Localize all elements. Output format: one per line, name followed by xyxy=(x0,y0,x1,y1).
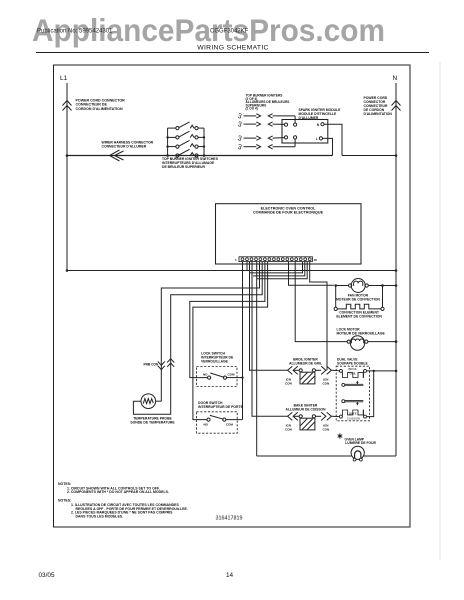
switch S4 xyxy=(176,149,198,157)
svg-text:L1: L1 xyxy=(60,75,68,82)
switch S3 xyxy=(168,140,204,148)
broil igniter HE1 xyxy=(293,369,299,371)
page edge artifact line xyxy=(439,62,441,560)
svg-text:N: N xyxy=(317,123,320,127)
svg-text:INTERRUPTEUR DE PORTE: INTERRUPTEUR DE PORTE xyxy=(198,405,244,409)
label wiring harness connector xyxy=(102,141,154,149)
wire module L to bus xyxy=(323,138,333,155)
connector IGN CON broil right xyxy=(321,366,326,374)
igniter E3 xyxy=(237,133,285,143)
svg-text:SOUPAPE DOUBLE: SOUPAPE DOUBLE xyxy=(337,362,369,366)
connector IGN CON bake left xyxy=(288,412,293,420)
label door switch xyxy=(198,401,244,409)
electronic oven control U2 xyxy=(216,204,362,264)
label bake igniter xyxy=(286,403,327,411)
svg-text:CORDON D'ALIMENTATION: CORDON D'ALIMENTATION xyxy=(76,107,123,111)
label lock switch xyxy=(201,351,234,363)
svg-text:CON: CON xyxy=(322,382,329,386)
temperature probe RT1 xyxy=(141,394,156,409)
svg-text:L: L xyxy=(316,137,318,141)
svg-text:CON: CON xyxy=(285,428,292,432)
wire EOC pin1 to lock/door COM chain xyxy=(242,262,244,420)
wire L1 to N link row xyxy=(67,270,396,272)
wire EOC to lock switch NO xyxy=(190,262,265,378)
svg-text:D'ALIMENTATION: D'ALIMENTATION xyxy=(364,112,393,116)
label oven lamp xyxy=(345,437,377,445)
bimetal arm 2 xyxy=(342,400,345,403)
igniter E1 (electrode + spark gap) xyxy=(237,111,295,123)
wire EOC to bake igniter feed xyxy=(252,262,288,417)
wire module N to neutral xyxy=(324,124,342,155)
wire switch bank left rail xyxy=(167,128,169,155)
top burner igniter switch bank xyxy=(168,128,204,155)
convection element R1 xyxy=(334,307,337,310)
connector IGN CON broil left xyxy=(288,366,293,374)
wire EOC to probe left xyxy=(161,262,259,402)
wire oven lamp row xyxy=(257,455,396,457)
label top burner igniter switches xyxy=(162,157,219,169)
svg-text:ALLUMEUR DE GRIL: ALLUMEUR DE GRIL xyxy=(289,362,322,366)
wire switch bank right rail xyxy=(203,128,205,155)
wire EOC pin16 to broil sense xyxy=(310,262,327,371)
asterisk oven lamp xyxy=(338,433,343,438)
svg-text:ELEMENT DE CONVECTION: ELEMENT DE CONVECTION xyxy=(336,315,382,319)
svg-text:14: 14 xyxy=(226,572,234,579)
svg-text:316417819: 316417819 xyxy=(216,516,243,522)
label power cord connector L1 xyxy=(76,99,126,111)
svg-text:LUMIERE DE FOUR: LUMIERE DE FOUR xyxy=(345,441,376,445)
igniter E4 xyxy=(237,139,295,151)
svg-text:SONDE DE TEMPERATURE: SONDE DE TEMPERATURE xyxy=(130,420,175,424)
svg-text:CON: CON xyxy=(322,428,329,432)
notes text french xyxy=(58,499,188,519)
lock switch SW5 xyxy=(197,367,238,387)
wire EOC to probe right xyxy=(133,262,262,415)
wire L1 vertical xyxy=(66,83,68,271)
broil valve coil xyxy=(339,369,342,372)
svg-text:Publication No: 5995424301: Publication No: 5995424301 xyxy=(37,29,113,35)
wire convection branch left xyxy=(335,286,337,308)
svg-text:NOTES:: NOTES: xyxy=(58,482,71,486)
oven lamp DS1 xyxy=(351,446,364,459)
label fan motor xyxy=(336,293,380,301)
connector PRB CON right xyxy=(167,363,174,367)
svg-text:CUISSON: CUISSON xyxy=(347,417,360,421)
title underline xyxy=(36,52,429,54)
svg-text:PRB CON: PRB CON xyxy=(144,362,159,366)
terminal strip EOC xyxy=(239,257,312,262)
bake valve coil xyxy=(339,415,342,418)
svg-text:COM: COM xyxy=(226,423,234,427)
lock motor M2 xyxy=(347,336,396,350)
wire EOC to fan motor feed xyxy=(289,262,334,286)
wire valve outputs to N rail xyxy=(367,370,397,372)
spark igniter module U1 xyxy=(282,120,328,144)
igniter E2 xyxy=(237,119,285,129)
svg-text:VERROUILLAGE: VERROUILLAGE xyxy=(201,359,229,363)
label convection element xyxy=(336,311,382,319)
svg-text:3: 3 xyxy=(237,142,243,152)
wire EOC pin15 route left xyxy=(257,262,307,279)
schematic border frame xyxy=(54,65,411,527)
label power cord connector N xyxy=(364,96,393,116)
connector IGN CON bake right xyxy=(321,412,326,420)
junction dots switch bank xyxy=(166,136,205,157)
svg-text:(2 OU 4): (2 OU 4) xyxy=(246,107,258,111)
power cord connector L1 xyxy=(63,101,72,106)
svg-text:CGGF3042KF: CGGF3042KF xyxy=(210,29,249,35)
junction L1 bus xyxy=(66,154,69,157)
svg-text:16: 16 xyxy=(314,258,318,262)
fan motor M1 xyxy=(336,279,396,293)
wire convection branch right xyxy=(382,286,384,308)
svg-text:CONNECTEUR D'ALLUMER: CONNECTEUR D'ALLUMER xyxy=(102,145,147,149)
svg-text:COM: COM xyxy=(228,372,236,376)
svg-text:MOTEUR DE VERROUILLAGE: MOTEUR DE VERROUILLAGE xyxy=(337,332,386,336)
wire neutral segment to N rail xyxy=(342,155,396,157)
wire door switch COM to chain xyxy=(226,419,243,421)
label spark igniter module xyxy=(299,108,342,120)
switch S2 xyxy=(168,131,204,139)
bimetal arm 1 xyxy=(356,381,358,384)
wire L1 bus xyxy=(67,155,333,157)
wire EOC to broil igniter feed xyxy=(250,262,288,371)
svg-text:DE BRULEUR SUPERIEUR: DE BRULEUR SUPERIEUR xyxy=(162,165,206,169)
wire N vertical xyxy=(395,83,397,456)
svg-text:BROIL: BROIL xyxy=(348,367,357,371)
bake igniter HE2 xyxy=(293,415,299,417)
label temperature probe xyxy=(130,416,175,424)
svg-text:3: 3 xyxy=(237,119,243,129)
wire EOC pin2 drop to link row xyxy=(246,262,248,271)
svg-text:BAKE: BAKE xyxy=(349,411,357,415)
svg-text:NO: NO xyxy=(204,423,209,427)
power cord connector N xyxy=(392,101,401,106)
label dual valve xyxy=(337,357,369,365)
label broil igniter xyxy=(289,357,322,365)
wire probe right lead xyxy=(156,400,162,402)
svg-text:NOTES:: NOTES: xyxy=(58,499,71,503)
svg-text:CON: CON xyxy=(285,382,292,386)
svg-text:1: 1 xyxy=(235,258,237,262)
svg-text:ALLUMEUR DE CUISSON: ALLUMEUR DE CUISSON xyxy=(286,408,327,412)
wire EOC pin14 route left xyxy=(253,262,305,276)
svg-text:WIRING SCHEMATIC: WIRING SCHEMATIC xyxy=(197,45,269,52)
wire lock switch COM to chain xyxy=(227,377,243,379)
pin terminals module xyxy=(284,123,324,140)
wire EOC to oven lamp feed xyxy=(256,262,258,456)
wire EOC to door switch NO xyxy=(193,262,268,420)
label lock motor xyxy=(337,328,386,336)
dual valve V1 (dashed box) xyxy=(336,366,369,421)
svg-text:MOTEUR DE CONVECTION: MOTEUR DE CONVECTION xyxy=(336,297,380,301)
wiring harness connector symbol xyxy=(110,150,120,161)
pins terminal strip xyxy=(241,258,311,261)
wire broil igniter to valve xyxy=(331,369,339,371)
svg-text:N: N xyxy=(393,75,398,82)
svg-text:DANS TOUS LES MODELES.: DANS TOUS LES MODELES. xyxy=(76,514,124,518)
wire EOC pin13 route left xyxy=(250,262,303,273)
wire EOC to lock motor feed xyxy=(295,262,347,342)
door switch SW6 xyxy=(197,412,238,433)
label top burner igniters xyxy=(246,94,290,111)
svg-text:03/05: 03/05 xyxy=(39,572,55,579)
notes text english xyxy=(58,482,169,494)
connector PRB CON left xyxy=(158,362,165,366)
wire bake igniter to valve xyxy=(331,415,339,417)
switch S1 xyxy=(168,122,204,130)
svg-text:2. COMPONENTS WITH * DO NOT A: 2. COMPONENTS WITH * DO NOT APPEAR ON AL… xyxy=(67,490,169,494)
svg-text:COMMANDE DE FOUR ELECTRONIQUE: COMMANDE DE FOUR ELECTRONIQUE xyxy=(253,211,324,215)
svg-text:NO: NO xyxy=(203,372,208,376)
